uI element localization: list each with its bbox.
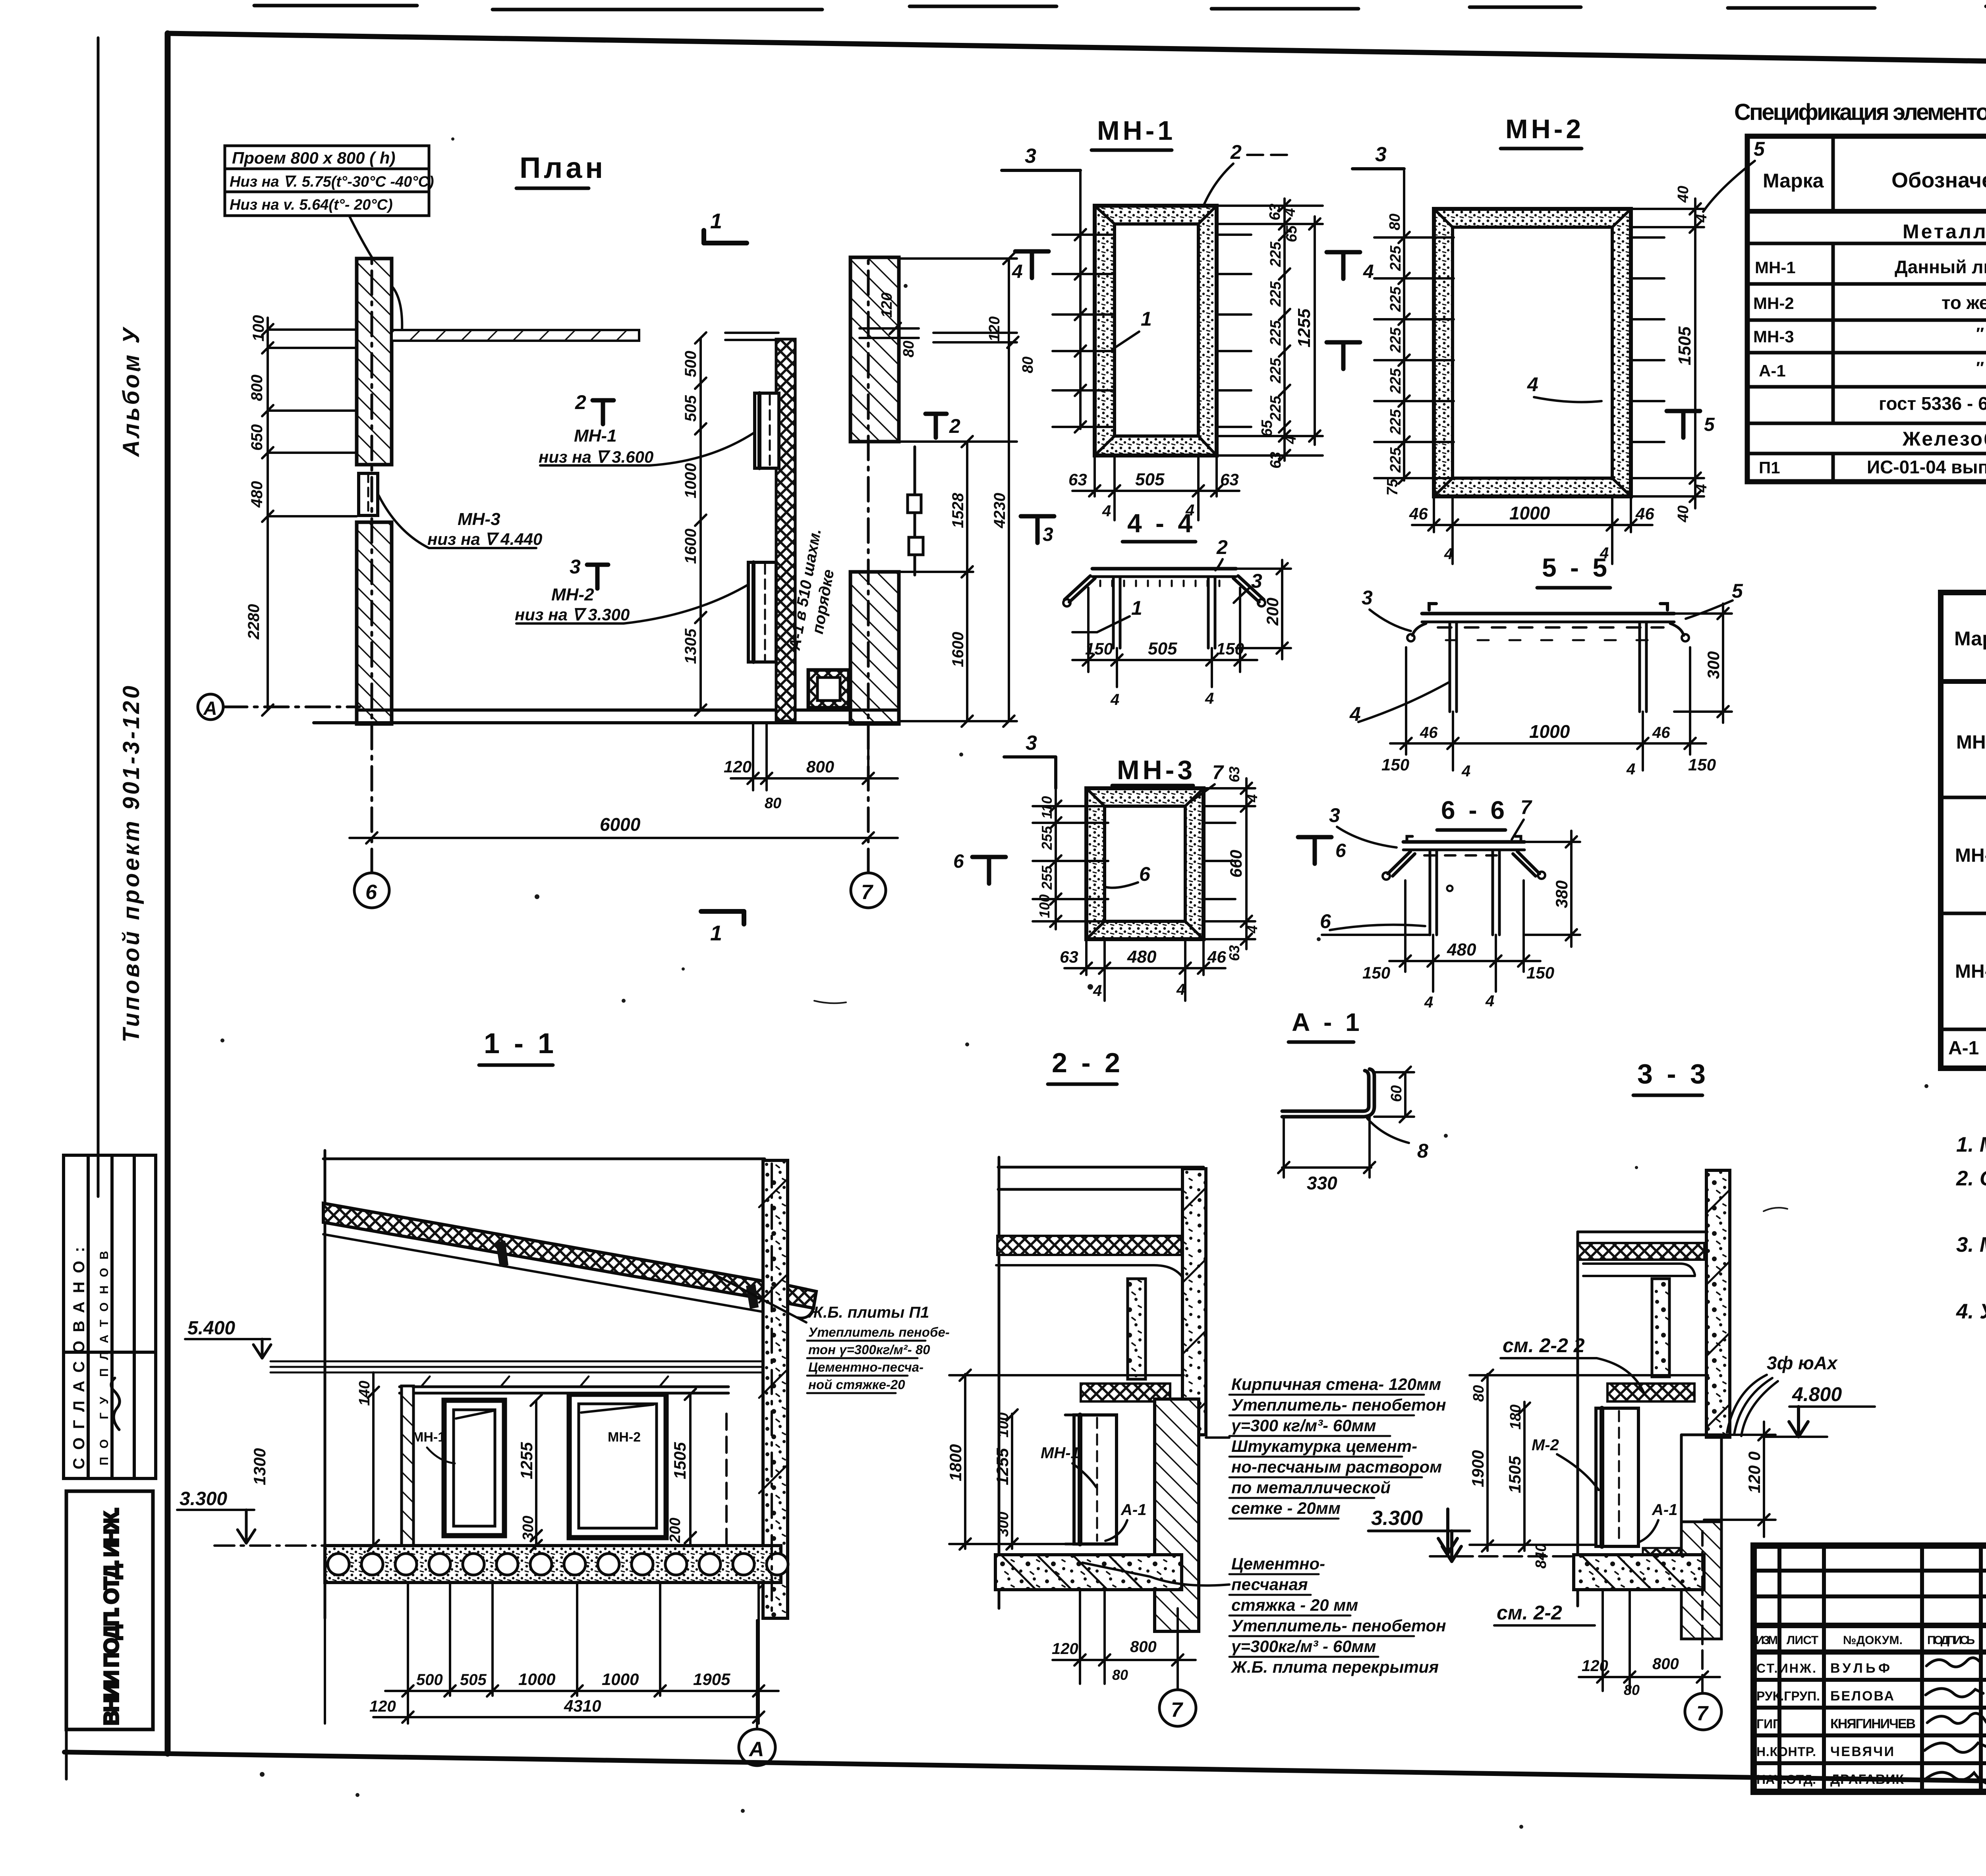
MH-1 T3 mark lower left	[1021, 516, 1054, 543]
svg-text:650: 650	[248, 424, 266, 451]
3-3 axis 7	[1685, 1531, 1721, 1730]
svg-text:1255: 1255	[993, 1448, 1012, 1485]
svg-text:500: 500	[416, 1671, 443, 1689]
svg-text:3: 3	[1026, 731, 1037, 755]
svg-text:МН-1: МН-1	[412, 1430, 445, 1445]
svg-text:но-песчаным раствором: но-песчаным раствором	[1231, 1457, 1442, 1476]
3-3 left dim chains	[1470, 1370, 1708, 1552]
svg-text:150: 150	[1381, 755, 1409, 774]
svg-text:6000: 6000	[600, 814, 641, 835]
4-4 dims	[1072, 588, 1257, 687]
svg-text:ИС-01-04 вып. 2: ИС-01-04 вып. 2	[1867, 457, 1986, 477]
spec table elements text	[1753, 160, 1986, 477]
svg-text:МН-2: МН-2	[551, 585, 594, 604]
svg-text:4: 4	[1485, 992, 1494, 1010]
svg-text:255: 255	[1039, 865, 1055, 890]
svg-text:4.800: 4.800	[1792, 1383, 1842, 1405]
2-2 inner post	[1128, 1279, 1146, 1379]
svg-text:ПОДПИСЬ: ПОДПИСЬ	[1927, 1634, 1975, 1647]
MH-2 section mark 3 top	[1352, 167, 1404, 170]
svg-text:4: 4	[1363, 261, 1374, 282]
svg-text:65: 65	[1259, 420, 1275, 437]
svg-text:5.400: 5.400	[187, 1318, 235, 1339]
svg-text:120: 120	[986, 317, 1003, 342]
2-2 roof insulation band	[997, 1236, 1182, 1255]
svg-text:МН-1: МН-1	[1041, 1444, 1080, 1462]
MH-3 right stubs and dims	[1204, 823, 1235, 899]
MH-3 section 3 line	[1004, 757, 1056, 788]
MH-1 top-left section mark 3	[1002, 169, 1080, 172]
svg-text:7: 7	[1520, 796, 1532, 818]
svg-text:1000: 1000	[1529, 721, 1570, 742]
svg-text:46: 46	[1207, 948, 1226, 966]
svg-text:4: 4	[1110, 691, 1119, 708]
svg-text:300: 300	[1704, 651, 1723, 679]
spec table marks grid	[1941, 593, 1986, 1068]
svg-text:63: 63	[1226, 945, 1242, 961]
svg-text:1528: 1528	[949, 492, 967, 528]
1-1 sloped roof slab	[323, 1203, 816, 1318]
svg-text:№ДОКУМ.: №ДОКУМ.	[1843, 1634, 1903, 1647]
1-1 interior vertical dims	[368, 1372, 726, 1551]
svg-text:500: 500	[682, 351, 699, 377]
svg-text:1000: 1000	[1509, 503, 1550, 523]
5-5 dims	[1390, 647, 1706, 770]
2-2 bottom dims	[1053, 1590, 1196, 1684]
svg-text:Утеплитель- пенобетон: Утеплитель- пенобетон	[1231, 1616, 1446, 1635]
svg-text:150: 150	[1688, 755, 1716, 774]
svg-text:120: 120	[879, 293, 895, 318]
3-3 brick wall hatched	[1681, 1435, 1721, 1639]
svg-text:40: 40	[1675, 506, 1692, 523]
svg-text:120 0: 120 0	[1745, 1451, 1764, 1493]
2-2 embedded frame MH-1	[1065, 1415, 1117, 1544]
svg-text:по металлической: по металлической	[1231, 1478, 1391, 1497]
svg-text:40: 40	[1675, 186, 1692, 203]
svg-text:сетке - 20мм: сетке - 20мм	[1231, 1499, 1341, 1517]
svg-text:3: 3	[1362, 587, 1373, 609]
1-1 frame MH-2	[569, 1394, 666, 1538]
svg-text:80: 80	[1470, 1385, 1487, 1402]
svg-text:5 - 5: 5 - 5	[1542, 553, 1610, 582]
3-3 elevation arrow left	[1438, 1509, 1457, 1554]
plan rotated anchor note	[786, 527, 844, 655]
plan middle dim ladder	[695, 332, 706, 716]
1-1 bottom dim rows	[325, 1583, 779, 1724]
plan right dim lines	[899, 253, 1017, 727]
1-1 interior ceiling slab	[270, 1361, 763, 1393]
svg-text:200: 200	[1263, 598, 1282, 626]
svg-text:4: 4	[1093, 982, 1102, 1000]
frame top	[168, 33, 1986, 70]
svg-text:63: 63	[1267, 452, 1284, 469]
2-2 floor slab	[995, 1555, 1182, 1590]
svg-text:″: ″	[1976, 324, 1984, 343]
svg-text:МН-1: МН-1	[1956, 732, 1986, 753]
svg-text:5: 5	[1704, 414, 1715, 435]
plan section mark 1 top	[704, 230, 747, 243]
svg-text:А-1: А-1	[1652, 1501, 1677, 1519]
1-1 top line	[323, 1158, 765, 1160]
svg-text:М-2: М-2	[1532, 1436, 1559, 1454]
svg-text:4: 4	[1283, 436, 1299, 444]
svg-text:γ=300кг/м³ - 60мм: γ=300кг/м³ - 60мм	[1231, 1637, 1376, 1656]
svg-text:46: 46	[1409, 504, 1428, 523]
svg-text:МН-2: МН-2	[1505, 114, 1584, 144]
plan left wall (hatched)	[357, 259, 392, 724]
svg-text:Марка: Марка	[1763, 170, 1824, 192]
svg-text:1255: 1255	[517, 1442, 536, 1479]
svg-text:γ=300 кг/м³- 60мм: γ=300 кг/м³- 60мм	[1231, 1416, 1376, 1435]
svg-text:4: 4	[1205, 690, 1214, 707]
svg-text:7: 7	[1212, 761, 1224, 784]
svg-text:3.300: 3.300	[1371, 1507, 1423, 1530]
svg-text:Кирпичная стена- 120мм: Кирпичная стена- 120мм	[1231, 1375, 1441, 1393]
svg-text:2: 2	[1230, 141, 1242, 163]
spec table elements grid	[1747, 136, 1986, 482]
svg-text:1: 1	[710, 921, 722, 945]
3-3 inner post	[1652, 1279, 1669, 1377]
svg-text:80: 80	[1112, 1667, 1128, 1683]
svg-text:3. Металлоконструкции окрас: 3. Металлоконструкции окрасить за 2раза …	[1956, 1233, 1986, 1256]
plan riser pipe symbol	[908, 447, 923, 575]
leader wire from info box	[350, 216, 402, 332]
svg-text:7: 7	[861, 881, 873, 904]
MH-1 frame	[1095, 206, 1217, 455]
svg-text:МН-3: МН-3	[1753, 327, 1794, 346]
3-3 bottom dims	[1579, 1591, 1720, 1691]
svg-text:1905: 1905	[693, 1670, 730, 1689]
svg-text:120: 120	[369, 1698, 396, 1715]
5-5 right dim 300	[1674, 604, 1732, 723]
svg-text:120: 120	[1052, 1640, 1078, 1658]
svg-text:800: 800	[806, 757, 834, 776]
svg-text:505: 505	[682, 395, 699, 422]
svg-text:МН-3: МН-3	[1117, 755, 1196, 785]
svg-text:Н.КОНТР.: Н.КОНТР.	[1756, 1745, 1816, 1759]
svg-text:4. Утеплитель крепить н: 4. Утеплитель крепить на анкерах А-1	[1956, 1300, 1986, 1323]
1-1 left edge line	[324, 1150, 326, 1618]
plan top wall	[392, 330, 639, 341]
detail A-1 bent anchor	[1282, 1069, 1374, 1117]
svg-text:НАЧ.ОТД.: НАЧ.ОТД.	[1756, 1772, 1816, 1787]
svg-text:4: 4	[1244, 925, 1260, 934]
svg-text:225: 225	[1267, 241, 1284, 267]
plan axis 6 circle	[354, 259, 389, 908]
MH-3 bottom dims	[1064, 939, 1225, 1001]
svg-text:низ на ∇ 4.440: низ на ∇ 4.440	[427, 530, 542, 548]
svg-text:Штукатурка цемент-: Штукатурка цемент-	[1231, 1437, 1417, 1455]
svg-text:А-1: А-1	[1948, 1038, 1979, 1059]
svg-text:225: 225	[1267, 358, 1284, 384]
svg-text:А: А	[748, 1738, 764, 1761]
svg-text:4: 4	[1012, 261, 1023, 282]
svg-text:1800: 1800	[946, 1444, 965, 1481]
MH-2 frame	[1434, 209, 1631, 496]
svg-text:180: 180	[1507, 1405, 1524, 1430]
svg-text:Спецификация элементов к марки: Спецификация элементов к маркировочным с…	[1734, 99, 1986, 125]
svg-text:Обозначение: Обозначение	[1891, 168, 1986, 192]
torn top edge dashes	[254, 6, 1986, 10]
svg-text:МН-1: МН-1	[574, 426, 617, 446]
svg-text:1900: 1900	[1468, 1450, 1487, 1487]
2-2 floor note text	[1231, 1554, 1446, 1676]
2-2 left dim chains	[949, 1370, 1184, 1550]
svg-text:песчаная: песчаная	[1231, 1575, 1308, 1594]
svg-text:100: 100	[250, 315, 267, 342]
svg-text:505: 505	[1148, 639, 1177, 658]
svg-text:225: 225	[1387, 447, 1404, 473]
title block text	[1756, 1570, 1986, 1791]
svg-text:ПО ГУ ПЛАТОНОВ: ПО ГУ ПЛАТОНОВ	[98, 1251, 111, 1465]
svg-text:Утеплитель пенобе-: Утеплитель пенобе-	[808, 1325, 950, 1339]
MH-2 left dim ladder	[1374, 171, 1454, 484]
MH-1 left dim ladder	[1053, 171, 1112, 432]
svg-text:3.300: 3.300	[180, 1488, 227, 1509]
plan axis A circle	[198, 694, 359, 720]
MH-2 right anchor stubs	[1631, 237, 1664, 442]
svg-text:225: 225	[1267, 281, 1284, 307]
svg-text:80: 80	[1020, 357, 1036, 373]
MH-2 right dims	[1631, 199, 1704, 508]
3-3 embedded frame M-2	[1596, 1408, 1638, 1546]
svg-text:380: 380	[1552, 880, 1571, 908]
plan bottom dims 120/800/80	[731, 724, 898, 790]
plan: info box (Проем 800x800)	[225, 146, 429, 216]
svg-text:6: 6	[1335, 840, 1346, 861]
svg-text:8: 8	[1417, 1140, 1428, 1162]
svg-text:3: 3	[1043, 524, 1053, 545]
svg-text:80: 80	[1387, 214, 1403, 230]
section 4-4 drawing	[1063, 569, 1265, 648]
svg-text:800: 800	[248, 374, 266, 401]
svg-text:4: 4	[1424, 994, 1433, 1011]
svg-text:6: 6	[953, 851, 964, 872]
plan section mark 2 inner	[593, 400, 614, 424]
svg-text:225: 225	[1387, 245, 1404, 271]
svg-text:Утеплитель- пенобетон: Утеплитель- пенобетон	[1231, 1395, 1446, 1414]
svg-text:низ на ∇ 3.300: низ на ∇ 3.300	[515, 605, 630, 624]
plan inner shaft wall (meshed)	[776, 339, 795, 721]
svg-text:2280: 2280	[245, 604, 263, 640]
svg-text:4: 4	[1282, 208, 1298, 217]
svg-text:1 - 1: 1 - 1	[484, 1028, 557, 1060]
svg-text:46: 46	[1635, 504, 1654, 523]
approval box (Согласовано)	[64, 1155, 156, 1478]
svg-text:″: ″	[1976, 358, 1984, 377]
2-2 axis 7	[1159, 1608, 1196, 1726]
svg-text:то же: то же	[1942, 292, 1986, 313]
svg-text:100: 100	[1036, 894, 1053, 918]
svg-text:3ф юАх: 3ф юАх	[1767, 1353, 1838, 1373]
MH-2 T4 between	[1327, 252, 1360, 279]
svg-text:Ж.Б. плита перекрытия: Ж.Б. плита перекрытия	[1231, 1658, 1439, 1676]
2-2 left edge line	[998, 1157, 1001, 1608]
MH-1 right anchor stubs	[1217, 235, 1251, 427]
svg-text:4: 4	[1444, 545, 1453, 563]
3-3 top slab	[1576, 1232, 1579, 1606]
svg-text:3: 3	[1251, 570, 1262, 592]
1-1 right wall column	[763, 1160, 788, 1618]
svg-text:3: 3	[1025, 145, 1036, 168]
svg-text:2. Сварку производить эле: 2. Сварку производить электродами Э42 по…	[1956, 1167, 1986, 1190]
MH-1 T4 mark left	[1015, 251, 1049, 278]
MH-1 right dim chain 225s	[1217, 199, 1323, 461]
MH-3 embedded element in wall opening	[359, 473, 378, 515]
svg-text:1505: 1505	[1505, 1456, 1524, 1493]
svg-text:225: 225	[1387, 327, 1404, 353]
svg-text:63: 63	[1060, 948, 1078, 966]
MH-3 left dim ladder	[1033, 788, 1108, 929]
svg-text:4: 4	[1693, 214, 1710, 223]
plan left dim ladder	[262, 318, 357, 716]
svg-text:Альбом У: Альбом У	[118, 326, 144, 457]
plan top-right cut dims 120/80	[860, 323, 919, 338]
svg-text:3: 3	[1375, 143, 1387, 166]
svg-text:60: 60	[1388, 1085, 1405, 1102]
svg-text:660: 660	[1227, 850, 1245, 878]
svg-text:1600: 1600	[682, 529, 699, 564]
svg-text:ДРАГАВИК: ДРАГАВИК	[1830, 1772, 1904, 1787]
svg-text:7: 7	[1696, 1702, 1709, 1725]
svg-text:Ж.Б. плиты П1: Ж.Б. плиты П1	[808, 1304, 929, 1321]
svg-text:200: 200	[667, 1518, 684, 1543]
svg-text:1505: 1505	[670, 1442, 689, 1479]
svg-text:А-1: А-1	[1121, 1501, 1146, 1519]
plan right lower wall block	[850, 572, 899, 724]
section 6-6 drawing	[1322, 836, 1545, 935]
plan MH-1 embedded element	[755, 393, 779, 468]
svg-text:см. 2-2 2: см. 2-2 2	[1503, 1334, 1585, 1357]
svg-text:Проем 800 х 800 ( h): Проем 800 х 800 ( h)	[232, 149, 395, 167]
svg-text:ИЗМ: ИЗМ	[1756, 1634, 1778, 1647]
svg-text:ГИП: ГИП	[1756, 1717, 1782, 1731]
svg-text:800: 800	[1130, 1638, 1157, 1656]
svg-text:225: 225	[1387, 409, 1404, 435]
svg-text:ЧЕВЯЧИ: ЧЕВЯЧИ	[1830, 1744, 1894, 1759]
svg-text:300: 300	[995, 1512, 1012, 1537]
title block frame	[1754, 1546, 1986, 1792]
svg-text:505: 505	[1135, 470, 1165, 489]
svg-text:6 - 6: 6 - 6	[1441, 796, 1508, 824]
svg-text:1. Материал металлоконструк: 1. Материал металлоконструкций - сталь В…	[1956, 1133, 1986, 1156]
svg-text:1000: 1000	[682, 463, 699, 498]
svg-text:3 - 3: 3 - 3	[1637, 1058, 1709, 1089]
svg-text:3: 3	[570, 556, 581, 578]
2-2 brick wall hatched	[1155, 1399, 1199, 1631]
svg-text:63: 63	[1226, 766, 1242, 782]
3-3 concrete wall	[1706, 1170, 1730, 1437]
svg-text:МН-1: МН-1	[1755, 258, 1796, 277]
3-3 floor slab	[1574, 1555, 1704, 1590]
svg-text:140: 140	[356, 1381, 373, 1406]
plan section mark 3 inner	[587, 565, 608, 589]
4-4 right dim 200	[1236, 560, 1291, 659]
svg-text:3: 3	[1329, 804, 1340, 826]
spec table marks text	[1954, 608, 1986, 676]
svg-text:СОГЛАСОВАНО:: СОГЛАСОВАНО:	[70, 1247, 88, 1469]
svg-text:2: 2	[1216, 536, 1228, 558]
svg-text:120: 120	[724, 757, 752, 776]
svg-text:ной стяжке-20: ной стяжке-20	[808, 1377, 905, 1392]
svg-text:6: 6	[1139, 863, 1151, 885]
svg-text:6: 6	[365, 881, 377, 904]
svg-text:А: А	[203, 698, 217, 719]
svg-text:150: 150	[1362, 963, 1390, 982]
svg-text:4: 4	[1102, 502, 1111, 520]
svg-text:Железобетонные: Железобетонные	[1902, 428, 1986, 450]
svg-text:225: 225	[1267, 320, 1284, 346]
2-2 concrete wall	[1182, 1169, 1206, 1435]
svg-text:480: 480	[248, 481, 266, 508]
6-6 right dim 380	[1524, 831, 1580, 947]
svg-text:5: 5	[1732, 580, 1743, 602]
svg-text:1: 1	[1141, 308, 1152, 330]
svg-text:7: 7	[1171, 1698, 1183, 1722]
svg-text:75: 75	[1384, 479, 1401, 496]
svg-text:1: 1	[710, 209, 722, 233]
svg-text:330: 330	[1307, 1173, 1337, 1193]
plan corner box element	[808, 670, 849, 708]
svg-text:низ на ∇ 3.600: низ на ∇ 3.600	[539, 448, 653, 466]
svg-text:гост 5336 - 67: гост 5336 - 67	[1879, 393, 1986, 414]
plan section mark 1 bottom	[701, 911, 744, 924]
notes list	[1956, 1133, 1986, 1323]
svg-text:4: 4	[1626, 760, 1635, 778]
plan bottom floor edge	[314, 710, 899, 723]
svg-text:А - 1: А - 1	[1292, 1008, 1363, 1036]
A-1 dims	[1278, 1067, 1414, 1177]
frame left	[165, 33, 171, 1754]
svg-text:2: 2	[949, 415, 960, 437]
svg-text:МН-2: МН-2	[608, 1430, 641, 1445]
svg-text:1600: 1600	[949, 632, 967, 667]
svg-text:80: 80	[765, 795, 781, 812]
svg-text:Данный лист: Данный лист	[1895, 257, 1986, 277]
svg-text:4: 4	[1527, 373, 1538, 396]
svg-text:БЕЛОВА: БЕЛОВА	[1830, 1689, 1894, 1704]
svg-text:1300: 1300	[250, 1448, 269, 1485]
svg-text:4: 4	[1461, 762, 1470, 780]
svg-text:тон γ=300кг/м²- 80: тон γ=300кг/м²- 80	[808, 1342, 930, 1357]
MH-3 T6 marks	[972, 857, 1006, 884]
svg-text:505: 505	[460, 1671, 487, 1689]
svg-text:ВУЛЬФ: ВУЛЬФ	[1830, 1661, 1890, 1676]
1-1 inner left wall	[402, 1386, 413, 1546]
svg-text:150: 150	[1085, 639, 1113, 658]
svg-text:КНЯГИНИЧЕВ: КНЯГИНИЧЕВ	[1830, 1716, 1916, 1731]
svg-text:80: 80	[900, 341, 917, 357]
plan axis 7 circle	[851, 259, 886, 908]
plan MH-2 embedded element	[748, 562, 776, 662]
plan right upper wall block	[850, 257, 899, 442]
svg-text:120: 120	[1582, 1657, 1608, 1675]
left fold line	[97, 38, 100, 1197]
svg-text:4: 4	[1244, 794, 1260, 803]
svg-text:225: 225	[1267, 396, 1284, 421]
MH-1 bottom dims	[1072, 455, 1239, 520]
svg-text:4: 4	[1693, 484, 1710, 493]
svg-text:1: 1	[1131, 597, 1142, 619]
plan overall dim 6000	[350, 832, 898, 843]
svg-text:800: 800	[1652, 1655, 1679, 1673]
signatures squiggles	[1924, 1658, 1986, 1784]
MH-1 wall dim 120/80 entering left	[933, 333, 1018, 348]
svg-text:4230: 4230	[991, 493, 1008, 529]
svg-text:Цементно-: Цементно-	[1231, 1554, 1325, 1573]
svg-text:см. 2-2: см. 2-2	[1497, 1602, 1562, 1624]
svg-text:ЛИСТ: ЛИСТ	[1787, 1634, 1818, 1647]
